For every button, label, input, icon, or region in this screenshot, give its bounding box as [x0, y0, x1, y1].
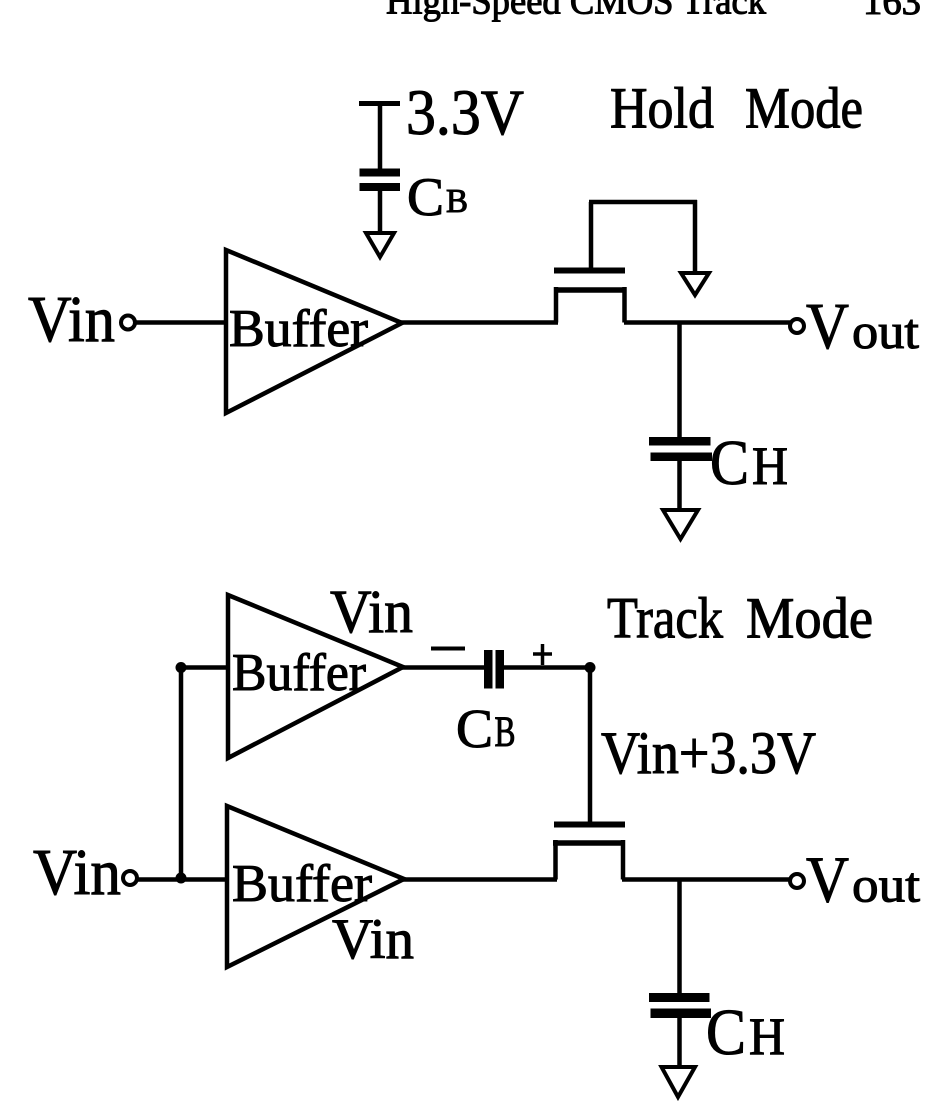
wire CB to gate node	[503, 665, 590, 670]
wire M2 drain to Vout	[622, 877, 790, 882]
wire junction vertical	[179, 668, 184, 879]
svg-text:out: out	[852, 857, 920, 913]
label CH (track mode)	[706, 996, 785, 1069]
power supply 3.3V rail bar	[359, 101, 400, 106]
wire M1 gate vertical	[589, 202, 594, 268]
output terminal circle Vout (track mode)	[790, 874, 804, 888]
label CB	[407, 167, 468, 227]
output terminal circle Vout (hold mode)	[790, 319, 804, 333]
svg-text:C: C	[407, 167, 444, 227]
arrow head gate control (hold mode)	[681, 273, 709, 295]
wire CH to ground	[677, 461, 682, 510]
label CB (track mode)	[456, 698, 516, 759]
op-amp buffer U3 (track mode bottom)	[227, 806, 404, 967]
svg-text:V: V	[806, 290, 849, 363]
label Vout (track mode)	[806, 844, 920, 917]
svg-text:Vin: Vin	[332, 908, 414, 971]
capacitor CH (track mode)	[649, 993, 711, 1018]
svg-text:163: 163	[863, 0, 921, 23]
wire CB to ground	[378, 191, 383, 233]
svg-text:Track: Track	[607, 586, 723, 651]
ground symbol below CH (track mode)	[662, 1067, 696, 1097]
svg-text:C: C	[706, 996, 746, 1069]
ground symbol below CB	[366, 233, 394, 257]
wire U2 output to CB	[401, 665, 486, 670]
wire supply to CB	[378, 103, 383, 170]
svg-text:C: C	[710, 427, 749, 498]
op-amp buffer U1 (hold mode)	[226, 250, 402, 413]
label Track Mode	[607, 586, 873, 651]
svg-text:Buffer: Buffer	[232, 855, 372, 913]
minus polarity mark	[431, 647, 465, 651]
svg-text:V: V	[806, 844, 849, 917]
svg-text:B: B	[495, 709, 516, 756]
svg-text:Vin+3.3V: Vin+3.3V	[601, 720, 816, 786]
wire node to CH (track mode)	[677, 880, 682, 995]
input terminal circle (hold mode)	[121, 316, 135, 330]
svg-text:Hold: Hold	[610, 76, 714, 141]
svg-text:Vin: Vin	[33, 836, 121, 909]
svg-text:Mode: Mode	[746, 586, 873, 651]
capacitor CB (hold mode)	[360, 169, 401, 192]
svg-text:High-Speed CMOS Track: High-Speed CMOS Track	[386, 0, 766, 23]
svg-text:Vin: Vin	[28, 283, 115, 356]
label Vout (hold mode)	[806, 290, 919, 363]
node junction bottom (track mode)	[176, 873, 187, 884]
capacitor CB (track mode)	[484, 650, 504, 689]
svg-text:H: H	[749, 1008, 785, 1066]
wire CH to ground (track mode)	[677, 1018, 682, 1067]
wire M1 drain to Vout	[624, 320, 790, 325]
transistor M1 (hold mode switch)	[554, 271, 626, 323]
svg-text:3.3V: 3.3V	[406, 77, 524, 149]
wire U2 input	[181, 665, 230, 670]
label Hold Mode	[610, 76, 863, 141]
wire node to CH	[677, 323, 682, 439]
label CH (hold mode)	[710, 427, 788, 498]
transistor M2 (track mode switch)	[553, 825, 625, 880]
wire gate loop horizontal	[589, 200, 697, 205]
svg-text:C: C	[456, 698, 493, 759]
capacitor CH (hold mode)	[649, 437, 712, 461]
input terminal circle (track mode)	[123, 871, 137, 885]
svg-text:Mode: Mode	[745, 76, 863, 141]
op-amp buffer U2 (track mode top)	[228, 595, 403, 758]
wire gate loop right vertical	[693, 200, 698, 273]
wire U3 output to M2 source	[402, 877, 557, 882]
svg-text:B: B	[446, 183, 468, 220]
wire Vin to junction to buffer	[138, 877, 228, 882]
node junction gate net	[585, 662, 596, 673]
wire gate net vertical	[588, 668, 593, 823]
node junction top (track mode)	[176, 662, 187, 673]
svg-text:Buffer: Buffer	[229, 300, 368, 358]
ground symbol below CH (hold mode)	[663, 510, 698, 539]
svg-text:H: H	[752, 436, 788, 496]
svg-text:Vin: Vin	[330, 579, 413, 646]
plus polarity mark	[533, 644, 552, 665]
wire buffer output to M1 source	[400, 320, 558, 325]
wire Vin to buffer input	[136, 320, 228, 325]
svg-text:out: out	[852, 303, 919, 359]
svg-text:Buffer: Buffer	[232, 644, 366, 702]
